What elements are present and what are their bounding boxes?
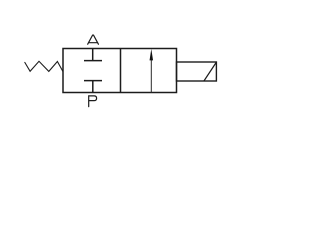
spring (return spring, left side) xyxy=(25,61,63,71)
blocked port A stub (left square, top) xyxy=(92,49,94,61)
flow path arrow shaft (right square) xyxy=(150,60,152,93)
blocked port P bar xyxy=(84,80,102,82)
blocked port A bar xyxy=(84,60,102,62)
solenoid box xyxy=(177,62,217,81)
flow path arrowhead xyxy=(150,49,154,61)
port label A xyxy=(88,35,99,44)
solenoid diagonal xyxy=(204,62,217,81)
blocked port P stub (left square, bottom) xyxy=(92,81,94,93)
position divider xyxy=(120,49,122,93)
port label P xyxy=(89,96,97,107)
valve body outline (two-position box) xyxy=(63,49,177,93)
